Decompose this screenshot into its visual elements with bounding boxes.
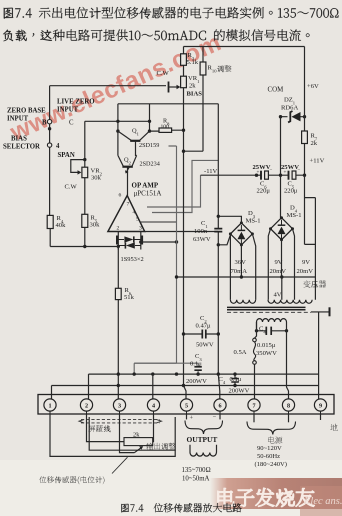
- svg-text:C.W: C.W: [65, 184, 78, 191]
- svg-text:0.1μ: 0.1μ: [230, 376, 242, 383]
- wire -11V row: [201, 174, 305, 176]
- wire Q1 base to Q2: [136, 141, 137, 156]
- svg-text:C.W: C.W: [157, 70, 170, 77]
- load coil 135-700ohm: [190, 445, 217, 453]
- svg-text:0.5A: 0.5A: [234, 349, 247, 356]
- svg-text:8: 8: [287, 402, 290, 409]
- op-amp U1 uPC151A: [108, 196, 145, 232]
- svg-text:OP AMP: OP AMP: [132, 182, 159, 190]
- capacitor C4 0.1u 200WV: [234, 374, 236, 385]
- svg-text:RD6A: RD6A: [281, 105, 298, 112]
- wire Q2 emitter to op-amp: [127, 168, 129, 196]
- svg-text:200WV: 200WV: [186, 378, 207, 385]
- svg-text:7: 7: [252, 402, 255, 409]
- resistor R6 51k: [117, 246, 119, 399]
- svg-text:20mV: 20mV: [297, 268, 314, 275]
- terminal 7: [248, 399, 260, 411]
- svg-text:INPUT: INPUT: [7, 116, 29, 123]
- svg-text:μPC151A: μPC151A: [134, 190, 162, 198]
- svg-text:2: 2: [85, 402, 88, 409]
- svg-text:+: +: [284, 170, 287, 176]
- wire diode right to rail: [141, 241, 177, 243]
- svg-text:MS-1: MS-1: [287, 212, 302, 219]
- wire terminal 1 drop: [51, 386, 53, 400]
- transformer core: [227, 307, 306, 309]
- svg-text:+: +: [190, 415, 194, 422]
- svg-text:9: 9: [319, 402, 322, 409]
- svg-text:MS-1: MS-1: [246, 218, 261, 225]
- svg-text:−: −: [213, 414, 217, 421]
- wire terminal2 to pot: [87, 414, 125, 442]
- svg-text:9V: 9V: [275, 259, 283, 266]
- svg-text:0.47μ: 0.47μ: [196, 323, 212, 330]
- capacitor C6 220u 25WV: [260, 171, 262, 180]
- svg-text:Elec ans.oo: Elec ans.oo: [303, 496, 342, 507]
- capacitor C1 100n 63WV: [214, 229, 222, 232]
- svg-text:OUTPUT: OUTPUT: [187, 435, 218, 444]
- terminal 4: [147, 399, 159, 411]
- terminal 9: [314, 399, 326, 411]
- wire terminal1 outer loop: [50, 414, 175, 456]
- potentiometer VR2 30k: [84, 121, 86, 214]
- winding secondary 350WV: [257, 319, 287, 322]
- svg-text:INPUT: INPUT: [57, 107, 79, 114]
- svg-text:2SD234: 2SD234: [140, 161, 160, 168]
- potentiometer VR1 2k BIAS: [181, 76, 187, 88]
- label R10 adjust: [217, 65, 232, 72]
- wire terminal 6 drop: [218, 374, 220, 399]
- svg-text:-11V: -11V: [204, 168, 218, 175]
- pointer line to label: [112, 457, 128, 473]
- terminal 3: [113, 399, 125, 411]
- svg-text:LIVE ZERO: LIVE ZERO: [57, 99, 95, 106]
- svg-text:4: 4: [152, 402, 155, 409]
- svg-text:2k: 2k: [311, 140, 318, 147]
- figure caption: [121, 503, 242, 512]
- capacitor C5 220u 25WV: [288, 171, 290, 180]
- svg-text:4: 4: [56, 143, 60, 150]
- svg-text:1S953×2: 1S953×2: [121, 256, 144, 263]
- terminal 8: [282, 399, 294, 411]
- svg-text:5: 5: [185, 402, 188, 409]
- winding 36V 70mA: [230, 234, 255, 300]
- node R8 right: [182, 129, 185, 132]
- fuse 0.5A: [255, 322, 257, 338]
- terminal 4 (bias selector): [47, 143, 51, 147]
- wire span to box: [85, 120, 150, 122]
- capacitor C3 0.1u 200WV: [134, 363, 198, 374]
- svg-text:6: 6: [218, 402, 221, 409]
- shield dashed line: [227, 311, 311, 313]
- wire terminal 2 drop: [88, 374, 90, 399]
- diode pair 1S953 x2: [118, 232, 141, 250]
- resistor R8 100: [150, 129, 184, 132]
- wire shield to terminal 9: [318, 312, 320, 399]
- svg-text:+11V: +11V: [310, 158, 325, 165]
- resistor R5 30k: [82, 214, 88, 227]
- svg-text:90~120V: 90~120V: [257, 445, 282, 452]
- label shield wire: [88, 425, 110, 432]
- wire D4 bottom to common: [281, 240, 283, 277]
- svg-text:BIAS: BIAS: [11, 136, 27, 143]
- terminal 6: [214, 399, 226, 411]
- wire +6V top rail: [184, 47, 305, 113]
- wire terminal3 to wiper: [120, 414, 135, 453]
- wire feedback rail: [134, 146, 176, 374]
- svg-text:B: B: [42, 120, 47, 127]
- wire terminal9 stub: [320, 414, 322, 420]
- potentiometer 2k output adjust: [124, 438, 153, 446]
- svg-text:350WV: 350WV: [256, 350, 277, 357]
- label output adjust: [146, 443, 175, 450]
- brace output: [185, 421, 223, 435]
- svg-text:C: C: [69, 120, 74, 127]
- wire fuse to terminal 7: [254, 364, 256, 399]
- wire COM rail: [281, 117, 282, 218]
- shield dashed wires: [81, 420, 160, 423]
- wire terminal8 stub: [288, 414, 290, 422]
- svg-text:50WV: 50WV: [196, 342, 214, 349]
- wire pin5 stub: [140, 221, 177, 223]
- terminal B: [47, 120, 51, 124]
- svg-text:30k: 30k: [90, 222, 101, 229]
- svg-text:+6V: +6V: [307, 83, 319, 90]
- wire terminal6 stub: [219, 414, 221, 419]
- sensor box: [89, 417, 175, 450]
- svg-text:5: 5: [136, 217, 139, 223]
- node diode left: [117, 245, 120, 248]
- terminal strip: [38, 395, 334, 415]
- resistor R3: [183, 47, 185, 77]
- transistor Q1 2SD159: [118, 131, 150, 140]
- resistor R7: [304, 112, 306, 175]
- terminal 2: [80, 399, 92, 411]
- wire terminal 5 drop: [184, 386, 187, 400]
- svg-text:51k: 51k: [124, 294, 135, 301]
- node diode right: [139, 240, 142, 243]
- bridge rectifier D3 MS-1: [230, 223, 252, 245]
- wire VR1 long rail: [183, 131, 185, 386]
- zener diode DZ1 RD6A: [281, 116, 305, 118]
- svg-text:3: 3: [118, 402, 121, 409]
- svg-text:50-60Hz: 50-60Hz: [257, 453, 280, 460]
- svg-text:BIAS: BIAS: [187, 91, 203, 98]
- svg-text:220μ: 220μ: [284, 188, 298, 195]
- resistor R10: [184, 47, 204, 152]
- label displacement sensor: [39, 476, 104, 484]
- svg-text:40k: 40k: [56, 222, 67, 229]
- wire R4 R5 bottom to diodes: [50, 246, 118, 248]
- label transformer: [303, 280, 326, 287]
- svg-text:30k: 30k: [91, 175, 102, 182]
- svg-text:25WV: 25WV: [253, 164, 271, 171]
- node junction below B: [48, 127, 51, 130]
- svg-text:COM: COM: [268, 87, 284, 94]
- bridge rectifier D4 MS-1: [271, 218, 293, 240]
- svg-text:5.1k: 5.1k: [187, 59, 199, 66]
- wire terminal 4 drop: [152, 374, 154, 399]
- svg-text:2: 2: [117, 226, 120, 232]
- svg-text:3: 3: [139, 226, 142, 232]
- svg-text:20mV: 20mV: [270, 268, 287, 275]
- wire long line lower: [52, 385, 319, 387]
- svg-text:SELECTOR: SELECTOR: [3, 144, 40, 151]
- wire D3 left to C1 bottom: [218, 235, 230, 245]
- svg-text:4V: 4V: [274, 292, 282, 299]
- svg-text:200WV: 200WV: [229, 388, 250, 395]
- wire inner box left edge: [117, 104, 119, 156]
- svg-text:2k: 2k: [133, 432, 140, 439]
- wire Q1 collector column: [149, 104, 151, 131]
- svg-text:(180~240V): (180~240V): [255, 461, 288, 468]
- terminal 5: [180, 399, 192, 411]
- svg-text:220μ: 220μ: [257, 188, 271, 195]
- svg-text:70mA: 70mA: [231, 268, 248, 275]
- wire D3 top to C1: [218, 216, 241, 223]
- wire outer left column: [50, 86, 166, 216]
- wire pin3 line: [145, 231, 219, 233]
- resistor R4 40k: [47, 215, 53, 228]
- wire terminal5 stub: [186, 414, 188, 419]
- watermark bottom right: [218, 488, 315, 507]
- svg-text:1: 1: [48, 402, 51, 409]
- svg-text:4: 4: [133, 210, 136, 216]
- caption text line 2: [3, 29, 310, 41]
- svg-text:0.1μ: 0.1μ: [190, 361, 202, 368]
- terminal 1: [44, 399, 56, 411]
- wire terminal4 to pot: [152, 414, 155, 442]
- svg-text:2k: 2k: [189, 83, 196, 90]
- label ground: [330, 424, 337, 431]
- wire D3 bottom to common: [240, 245, 242, 277]
- wire 4V tap: [281, 277, 283, 300]
- svg-text:9V: 9V: [302, 259, 310, 266]
- svg-text:7: 7: [127, 202, 130, 208]
- svg-text:100n: 100n: [194, 228, 208, 235]
- wire inner box top: [118, 103, 218, 105]
- wire common line: [177, 276, 316, 278]
- label power source: [268, 437, 282, 444]
- svg-text:10~50mA: 10~50mA: [182, 476, 210, 483]
- wire long line upper: [89, 373, 319, 375]
- wire pin7 supply step: [147, 175, 201, 207]
- caption text line 1: [4, 7, 339, 19]
- wire +11V to winding right: [305, 175, 316, 300]
- wire terminal7 stub: [253, 414, 255, 422]
- svg-text:135~700Ω: 135~700Ω: [182, 467, 211, 474]
- svg-text:6: 6: [119, 193, 122, 199]
- svg-text:ZERO BASE: ZERO BASE: [7, 108, 46, 115]
- svg-text:36V: 36V: [235, 259, 247, 266]
- svg-text:0.015μ: 0.015μ: [257, 342, 276, 349]
- wire main right rail: [217, 104, 219, 374]
- wire pin4 supply step: [152, 160, 218, 212]
- svg-text:63WV: 63WV: [193, 236, 211, 243]
- svg-text:SPAN: SPAN: [58, 152, 75, 159]
- capacitor across secondary 0.015u 350WV: [257, 322, 287, 331]
- svg-text:2SD159: 2SD159: [139, 142, 159, 149]
- winding 9V 20mV: [268, 229, 294, 300]
- capacitor C2 0.47u 50WV: [184, 333, 219, 335]
- brace power: [247, 422, 296, 435]
- transistor Q2 2SD234: [118, 155, 137, 166]
- svg-text:100: 100: [161, 124, 170, 130]
- wire secondary right to terminal 8: [287, 331, 289, 399]
